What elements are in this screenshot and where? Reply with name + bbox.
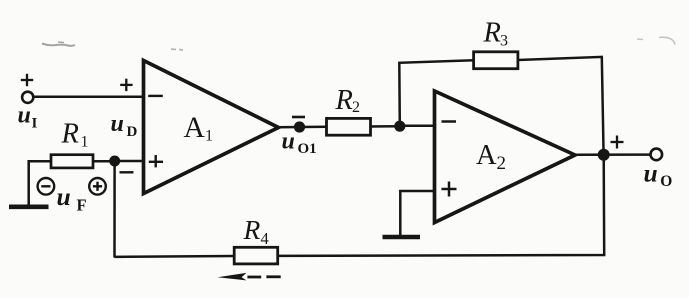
label u_F — [57, 182, 87, 215]
wire node to A2 inverting input — [400, 124, 435, 127]
minus sign inside A2 (inverting) — [442, 120, 457, 123]
wire node to A1 non-inverting input — [115, 160, 145, 163]
svg-text:u: u — [111, 111, 124, 137]
plus sign outside A1 above inverting wire — [120, 79, 132, 91]
plus sign at output — [611, 136, 624, 149]
wire input to A1 inverting input — [34, 96, 145, 99]
dashed feedback-direction arrow — [218, 273, 281, 281]
svg-text:1: 1 — [81, 134, 89, 151]
svg-text:F: F — [77, 196, 87, 215]
output terminal u_O — [651, 149, 663, 161]
svg-text:A: A — [476, 140, 497, 171]
circled plus (u_F polarity) — [89, 178, 106, 195]
label A_1 — [184, 112, 214, 145]
wire ground corner to R1 — [29, 161, 51, 205]
svg-text:R: R — [483, 18, 501, 49]
svg-text:u: u — [644, 159, 658, 188]
wire A2 output to output terminal — [575, 153, 651, 156]
svg-text:1: 1 — [205, 128, 213, 145]
label u_I — [18, 102, 38, 131]
wire R4 to left rail corner — [114, 255, 234, 258]
resistor R1 — [51, 155, 93, 168]
svg-text:R: R — [335, 85, 353, 116]
plus sign inside A2 (non-inverting) — [442, 182, 457, 197]
node at A2 inverting input — [394, 121, 405, 132]
feedback wire up from node, through R3, down to output node — [399, 60, 474, 126]
op-amp A1 — [144, 61, 279, 194]
plus sign at input terminal — [21, 74, 33, 86]
label u_O — [644, 159, 673, 190]
svg-text:2: 2 — [497, 153, 507, 174]
wire A2 non-inverting input to ground — [400, 191, 435, 236]
svg-text:R: R — [243, 214, 261, 245]
svg-text:u: u — [18, 102, 31, 128]
label u_O1 — [282, 129, 317, 158]
svg-text:D: D — [127, 124, 138, 140]
node u_O1 — [294, 121, 305, 132]
wire A1 output to R2 — [277, 126, 327, 129]
svg-text:3: 3 — [500, 33, 508, 50]
label R_3 — [483, 18, 509, 50]
svg-text:I: I — [32, 116, 38, 132]
node at R1 / A1 non-inverting input — [109, 156, 120, 167]
label R_4 — [243, 214, 269, 248]
minus sign outside A1 below non-inverting wire — [120, 171, 134, 173]
ground (A2 non-inverting) — [383, 235, 421, 240]
resistor R2 — [327, 118, 371, 135]
label R_1 — [61, 119, 89, 151]
svg-text:u: u — [282, 129, 295, 155]
svg-text:R: R — [61, 119, 79, 150]
ground (left, under u_F source) — [9, 205, 49, 210]
minus sign above u_O1 — [292, 116, 305, 119]
svg-text:O1: O1 — [298, 141, 317, 157]
wire R2 to node — [371, 125, 403, 128]
circled minus (u_F polarity) — [38, 178, 55, 195]
wire R3 right side down to output node — [518, 57, 604, 155]
resistor R3 — [474, 52, 518, 69]
label u_D — [111, 111, 138, 140]
output node — [598, 149, 610, 161]
input terminal u_I — [22, 92, 33, 103]
wire R1 to node — [93, 160, 118, 163]
resistor R4 — [234, 247, 278, 264]
svg-text:4: 4 — [261, 229, 269, 248]
label A_2 — [476, 140, 506, 174]
svg-text:A: A — [184, 112, 206, 144]
label R_2 — [335, 85, 361, 116]
svg-text:O: O — [660, 173, 672, 190]
op-amp A2 — [435, 91, 576, 223]
minus sign inside A1 (inverting) — [148, 95, 163, 97]
svg-text:u: u — [57, 182, 71, 211]
svg-text:2: 2 — [352, 99, 360, 116]
wire node down to bottom feedback rail — [113, 161, 116, 258]
plus sign inside A1 (non-inverting) — [149, 155, 163, 167]
bottom feedback rail through R4 — [278, 155, 604, 256]
